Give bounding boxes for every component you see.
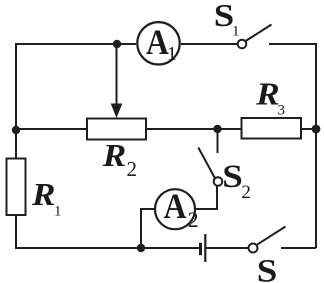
node dot top (junction at 117,44) [113, 40, 121, 48]
wire S1 to top-right corner and right vertical down [269, 44, 316, 248]
wire middle: left wire to R2 [16, 128, 87, 130]
switch S [249, 227, 286, 283]
wire R3 to right wire [301, 128, 316, 130]
wire middle: R2 to node B [146, 128, 218, 130]
svg-text:S: S [222, 158, 243, 195]
svg-text:3: 3 [278, 103, 286, 119]
wire A2 branch: bottom node up to A2 left [141, 209, 154, 248]
svg-text:1: 1 [167, 43, 177, 65]
battery cell [201, 234, 206, 262]
svg-text:2: 2 [127, 157, 138, 181]
node dot B (junction at 217.5,129) [213, 125, 221, 133]
wire switch S to bottom-right corner [281, 247, 316, 249]
wire node B to R3 [218, 128, 242, 130]
svg-text:R: R [255, 77, 280, 112]
wire left vertical (R1 to bottom-left corner) [15, 215, 17, 249]
rheostat R2 [87, 46, 146, 181]
svg-text:2: 2 [241, 182, 251, 203]
ammeter A1 [137, 22, 179, 65]
wire top-left horizontal (node A to A1) [16, 43, 136, 45]
svg-text:1: 1 [54, 204, 62, 220]
wire S2 fixed contact down from node B [217, 129, 219, 153]
svg-text:R: R [31, 177, 56, 212]
wire bottom: left corner to battery [16, 247, 201, 249]
wire A2 right to below S2 [196, 187, 217, 210]
node dot bottom (junction at 141,248) [137, 244, 145, 252]
svg-text:A: A [164, 187, 187, 226]
node dot left (junction at 16,129) [12, 126, 20, 134]
wire battery to switch S [205, 247, 248, 249]
switch S1 [214, 0, 272, 48]
svg-text:R: R [102, 138, 127, 173]
ammeter A2 [155, 187, 199, 232]
svg-text:A: A [146, 23, 169, 62]
svg-text:2: 2 [188, 207, 199, 232]
resistor R1 [7, 159, 62, 220]
svg-text:1: 1 [232, 24, 240, 40]
switch S2 [198, 148, 251, 204]
node dot right (junction at 316,129) [312, 125, 321, 134]
resistor R3 [242, 77, 302, 139]
wire A1 to S1 [181, 43, 237, 45]
svg-text:S: S [257, 252, 278, 283]
wire left vertical (top-left corner down to R1) [15, 43, 17, 159]
